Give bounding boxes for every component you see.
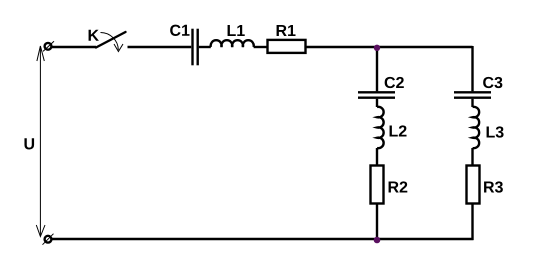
resistor R1 [268,40,306,53]
inductor L2 [377,107,384,148]
inductor L1 [211,40,254,47]
node junction bottom [374,237,381,244]
wire L1 to R1 [254,46,267,48]
terminal bottom-left [43,234,54,245]
switch K [96,32,126,48]
wire C1 to L1 [199,46,211,48]
label C1 [170,25,189,36]
bottom wire [52,238,474,240]
label C3 [483,77,502,88]
label U [24,138,34,149]
capacitor C2 [358,92,395,97]
wire C2 to L2 [376,99,378,107]
wire R1 to right corner [307,46,473,48]
resistor R3 [467,166,480,204]
wire switch to C1 [128,46,192,48]
switch K motion arc [101,33,119,51]
label L3 [487,126,504,137]
label L1 [228,25,245,36]
wire C3 to L3 [471,99,473,107]
resistor R2 [371,166,384,204]
wire L2 to R2 [376,148,378,165]
label L2 [390,125,407,136]
switch K arc arrowhead [114,44,123,52]
inductor L3 [473,107,480,148]
wire junction down to C2 [376,47,378,91]
wire R2 to bottom [376,205,378,240]
label R2 [389,181,408,192]
label R3 [484,181,503,192]
capacitor C3 [454,92,491,97]
label C2 [385,77,404,88]
node junction top [374,45,380,51]
wire top-left to switch [52,46,97,48]
voltage arrow line U [36,46,45,237]
label K [89,30,99,41]
terminal top-left [43,41,54,51]
wire R3 to bottom corner [471,205,473,241]
wire L3 to R3 [471,148,473,165]
capacitor C1 [193,29,198,66]
label R1 [277,25,296,36]
wire right branch down to C3 [471,46,473,91]
